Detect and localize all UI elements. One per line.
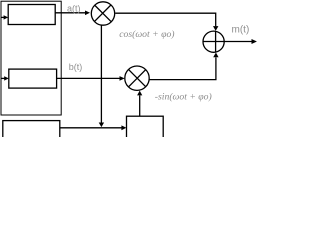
- wire M1 down to oscillator wire: [100, 25, 102, 122]
- box B2 (lower-left inner box): [9, 69, 57, 88]
- wire a(t) from B1 to mixer M1: [55, 12, 85, 14]
- wire M1 to adder (right then down): [115, 13, 216, 26]
- wire oscillator B3 to B4: [60, 127, 122, 129]
- svg-text:b(t): b(t): [69, 62, 83, 72]
- box B1 (top-left inner box): [8, 5, 55, 25]
- wire B4 up to mixer M2: [139, 96, 141, 117]
- mixer M1 (multiplier circle with X): [91, 2, 114, 25]
- svg-text:cos(ωot + φo): cos(ωot + φo): [119, 29, 174, 40]
- box B3 (bottom-left box, cut off): [3, 121, 60, 141]
- wire m(t) output: [224, 41, 252, 43]
- svg-text:m(t): m(t): [232, 25, 250, 36]
- svg-text:a(t): a(t): [67, 3, 81, 13]
- wire into B1: [1, 16, 4, 18]
- wire into B2: [1, 77, 5, 79]
- mixer M2 (multiplier circle with X): [125, 66, 149, 90]
- svg-text:-sin(ωot + φo): -sin(ωot + φo): [155, 91, 212, 102]
- wire M2 to adder (right then up): [149, 57, 216, 79]
- outer block rectangle: [1, 1, 61, 115]
- adder U1 (sum circle with +): [203, 31, 224, 52]
- wire b(t) from B2 to mixer M2: [57, 77, 120, 79]
- box B4 (bottom-middle box, cut off): [127, 116, 164, 140]
